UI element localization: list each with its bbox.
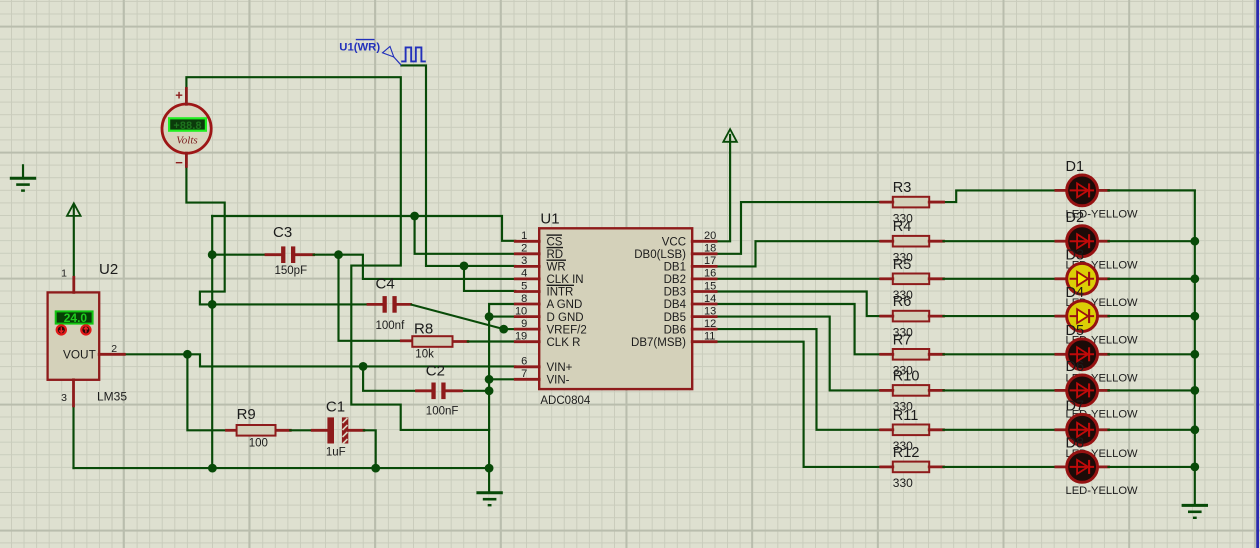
wire: D4 anode lead bbox=[944, 315, 1068, 317]
voltmeter label Volts bbox=[176, 135, 197, 147]
label LED-YELLOW (D4) bbox=[1066, 334, 1139, 346]
pin 10 (D GND) stub bbox=[515, 305, 584, 323]
svg-text:5: 5 bbox=[521, 280, 527, 292]
label R12 bbox=[893, 445, 920, 461]
wire: D3 cathode lead bbox=[1097, 277, 1194, 280]
resistor R4 bbox=[881, 236, 944, 247]
svg-text:7: 7 bbox=[521, 368, 527, 380]
svg-text:D5: D5 bbox=[1066, 323, 1085, 339]
wire: VOUT down to R9 bbox=[187, 354, 226, 430]
wire: diagonal to VREF/2 bbox=[411, 304, 504, 329]
svg-text:10: 10 bbox=[515, 305, 527, 317]
svg-text:U2: U2 bbox=[99, 261, 118, 278]
wire: voltmeter + to top rail bbox=[186, 77, 489, 430]
pin 7 (VIN-) stub bbox=[515, 368, 569, 386]
node: RD branch junction bbox=[410, 212, 419, 221]
svg-text:VOUT: VOUT bbox=[63, 347, 96, 361]
svg-text:VREF/2: VREF/2 bbox=[547, 324, 587, 336]
ground: floating symbol top-left bbox=[10, 165, 36, 190]
svg-text:DB7(MSB): DB7(MSB) bbox=[631, 337, 686, 349]
node: VREF/2 junction bbox=[499, 325, 508, 334]
label R3 bbox=[893, 180, 912, 196]
pin 8 (A GND) stub bbox=[515, 293, 582, 311]
label C2 bbox=[426, 362, 445, 379]
wire: D7 cathode lead bbox=[1097, 428, 1194, 431]
pin 2 (RD) stub bbox=[515, 243, 563, 261]
label C4 bbox=[376, 276, 395, 293]
value 330 (R5) bbox=[893, 288, 913, 302]
ground: bottom right bbox=[1182, 505, 1208, 517]
label D1 bbox=[1066, 159, 1085, 175]
svg-text:LM35: LM35 bbox=[97, 390, 127, 404]
wire: C2 right lead bbox=[447, 390, 490, 392]
pin 18 (DB0(LSB)) stub bbox=[634, 243, 716, 261]
wire: D1 cathode lead bbox=[1097, 189, 1194, 192]
svg-text:13: 13 bbox=[704, 305, 716, 317]
svg-text:U1(WR): U1(WR) bbox=[339, 42, 380, 54]
label R9 bbox=[237, 406, 256, 423]
power: VCC arrow near chip bbox=[723, 129, 737, 142]
svg-text:RD: RD bbox=[547, 249, 564, 261]
component U2 LM35 body bbox=[48, 292, 100, 379]
pin 9 (VREF/2) stub bbox=[515, 318, 586, 336]
wire: branch to RD pin 2 bbox=[415, 216, 516, 254]
wire: VIN- pin 7 bbox=[489, 378, 515, 380]
svg-text:DB4: DB4 bbox=[664, 299, 687, 311]
capacitor C4 bbox=[383, 296, 397, 313]
resistor R6 bbox=[881, 311, 944, 322]
label D6 bbox=[1066, 359, 1085, 375]
label C1 bbox=[326, 399, 345, 416]
chip U1 ADC0804 body bbox=[539, 228, 692, 389]
svg-text:10k: 10k bbox=[415, 348, 434, 360]
svg-text:VCC: VCC bbox=[662, 237, 686, 249]
pin 14 (DB4) stub bbox=[664, 293, 717, 311]
wire: DB4 pin 14 to R7 bbox=[716, 304, 881, 354]
wire: D7 anode lead bbox=[944, 429, 1068, 431]
LED D8 bbox=[1067, 452, 1098, 483]
value 330 (R3) bbox=[893, 211, 913, 225]
label R8 bbox=[414, 320, 433, 337]
svg-text:VIN-: VIN- bbox=[547, 375, 570, 387]
wire: power arrow to LM35 pin 1 bbox=[73, 206, 75, 278]
svg-text:DB3: DB3 bbox=[664, 287, 686, 299]
wire: R9 right to C1 bbox=[276, 429, 328, 432]
svg-text:100: 100 bbox=[249, 437, 268, 449]
svg-text:6: 6 bbox=[521, 356, 527, 368]
node: D8 on cathode rail bbox=[1190, 463, 1199, 472]
wire: D GND pin 10 bbox=[489, 316, 515, 318]
svg-text:330: 330 bbox=[893, 476, 913, 490]
voltmeter - mark bbox=[175, 155, 183, 170]
wire: DB7 pin 11 to R12 bbox=[716, 342, 881, 467]
svg-text:R11: R11 bbox=[893, 408, 919, 424]
svg-text:C3: C3 bbox=[273, 224, 292, 241]
wire: LED cathode rail to ground bbox=[1109, 190, 1195, 505]
node: C2 branch junction bbox=[359, 362, 368, 371]
wire: R3 output jog up to D1 bbox=[929, 190, 1067, 202]
label D2 bbox=[1066, 210, 1085, 226]
node: VIN- junction bbox=[485, 375, 494, 384]
node: WR/INTR junction bbox=[460, 262, 469, 271]
svg-text:DB6: DB6 bbox=[664, 324, 686, 336]
value 1uF bbox=[326, 447, 346, 459]
voltmeter display bbox=[169, 118, 206, 132]
resistor R10 bbox=[881, 385, 944, 396]
wire: C4 left lead bbox=[212, 303, 383, 305]
wire: LM35 pin 3 to bottom rail bbox=[72, 406, 74, 468]
svg-text:15: 15 bbox=[704, 280, 716, 292]
svg-text:D6: D6 bbox=[1066, 359, 1085, 375]
svg-text:20: 20 bbox=[704, 230, 716, 242]
U2 pin 1 stub bbox=[61, 267, 74, 292]
value 330 (R11) bbox=[893, 439, 913, 453]
svg-text:DB1: DB1 bbox=[664, 262, 686, 274]
label ADC0804 bbox=[540, 395, 590, 407]
label LED-YELLOW (D2) bbox=[1066, 259, 1139, 271]
voltmeter body bbox=[162, 89, 211, 167]
node: D2 on cathode rail bbox=[1190, 237, 1199, 246]
svg-text:17: 17 bbox=[704, 255, 716, 267]
svg-text:DB2: DB2 bbox=[664, 274, 686, 286]
wire: pulse gen to WR pin 3 bbox=[401, 65, 515, 266]
svg-text:19: 19 bbox=[515, 331, 527, 343]
resistor R7 bbox=[881, 349, 944, 360]
U2 VOUT text bbox=[63, 347, 96, 361]
wire: D5 cathode lead bbox=[1097, 353, 1194, 356]
pin 1 (CS) stub bbox=[515, 230, 563, 248]
wire: voltmeter - to ground net bbox=[186, 166, 224, 304]
pin 12 (DB6) stub bbox=[664, 318, 717, 336]
U2 up knob bbox=[81, 325, 90, 334]
wire: C1 right down to bottom rail bbox=[348, 430, 375, 468]
svg-text:D7: D7 bbox=[1066, 399, 1085, 415]
svg-text:9: 9 bbox=[521, 318, 527, 330]
pin 20 (VCC) stub bbox=[662, 230, 717, 248]
label U2 bbox=[99, 261, 118, 278]
node: trunk meets bottom rail bbox=[208, 464, 217, 473]
wire: A GND pin 8 to ground rail bbox=[489, 304, 515, 493]
node: D7 on cathode rail bbox=[1190, 425, 1199, 434]
value 330 (R12) bbox=[893, 476, 913, 490]
LED D5 bbox=[1067, 339, 1098, 370]
power: +V arrow above LM35 bbox=[67, 203, 81, 216]
svg-text:Volts: Volts bbox=[176, 135, 197, 147]
svg-text:C1: C1 bbox=[326, 399, 345, 416]
svg-text:U1: U1 bbox=[540, 210, 559, 227]
node: D4 on cathode rail bbox=[1190, 312, 1199, 321]
value 330 (R7) bbox=[893, 364, 913, 378]
svg-text:CLK IN: CLK IN bbox=[547, 274, 584, 286]
svg-text:R6: R6 bbox=[893, 294, 912, 310]
capacitor C3 bbox=[281, 246, 295, 263]
U2 down knob bbox=[57, 325, 66, 334]
svg-text:DB5: DB5 bbox=[664, 312, 686, 324]
label R6 bbox=[893, 294, 912, 310]
wire: DB5 pin 13 to R10 bbox=[716, 317, 881, 391]
wire: DB1 pin 17 to R4 bbox=[716, 241, 881, 266]
label R4 bbox=[893, 219, 912, 235]
wire: DB6 pin 12 to R11 bbox=[716, 329, 881, 430]
wire: R8 left lead bbox=[401, 339, 412, 342]
window border right edge bbox=[1256, 0, 1259, 548]
svg-text:INTR: INTR bbox=[547, 287, 574, 299]
pin 4 (CLK IN) stub bbox=[515, 268, 583, 286]
svg-text:14: 14 bbox=[704, 293, 716, 305]
label U1(WR) pulse source bbox=[339, 40, 380, 54]
wire: branch down to C2 bbox=[363, 366, 416, 390]
capacitor C1 polarized bbox=[327, 417, 348, 444]
wire: DB0 pin 18 to R3 bbox=[716, 202, 881, 254]
node: C1 meets bottom rail bbox=[371, 464, 380, 473]
svg-text:ADC0804: ADC0804 bbox=[540, 395, 590, 407]
svg-text:1: 1 bbox=[61, 267, 67, 279]
wire: D2 cathode lead bbox=[1097, 240, 1194, 243]
svg-text:100nF: 100nF bbox=[426, 405, 459, 417]
node: bottom rail meets gnd rail bbox=[485, 464, 494, 473]
label LED-YELLOW (D8) bbox=[1066, 485, 1139, 497]
wire: C2 left lead bbox=[417, 389, 432, 392]
value 10k bbox=[415, 348, 434, 360]
svg-text:−: − bbox=[175, 155, 183, 170]
wire: D3 anode lead bbox=[944, 278, 1068, 280]
svg-text:R12: R12 bbox=[893, 445, 920, 461]
wire: LM35 VOUT run to VIN+ pin 6 bbox=[124, 354, 515, 366]
svg-text:3: 3 bbox=[61, 392, 67, 404]
ground: below chip bbox=[476, 493, 502, 505]
pin 5 (INTR) stub bbox=[515, 280, 574, 298]
svg-text:D GND: D GND bbox=[547, 312, 584, 324]
svg-text:2: 2 bbox=[521, 243, 527, 255]
svg-text:R7: R7 bbox=[893, 332, 912, 348]
svg-text:CLK R: CLK R bbox=[547, 337, 581, 349]
node: D3 on cathode rail bbox=[1190, 274, 1199, 283]
pin 13 (DB5) stub bbox=[664, 305, 717, 323]
resistor R3 bbox=[881, 197, 944, 208]
node: C4 left junction bbox=[208, 300, 217, 309]
label R5 bbox=[893, 257, 912, 273]
value 100nf bbox=[376, 320, 406, 332]
label D5 bbox=[1066, 323, 1085, 339]
label R7 bbox=[893, 332, 912, 348]
svg-text:1uF: 1uF bbox=[326, 447, 346, 459]
LED D2 bbox=[1067, 226, 1098, 257]
wire: C4 right lead bbox=[396, 303, 410, 306]
resistor R5 bbox=[881, 274, 944, 285]
node: D6 on cathode rail bbox=[1190, 386, 1199, 395]
wire: D2 anode lead bbox=[944, 240, 1068, 242]
svg-text:24.0: 24.0 bbox=[64, 311, 88, 325]
capacitor C2 bbox=[431, 383, 445, 400]
pin 11 (DB7(MSB)) stub bbox=[631, 331, 716, 349]
pin 17 (DB1) stub bbox=[664, 255, 717, 273]
node: C3 left junction bbox=[208, 250, 217, 259]
resistor R11 bbox=[881, 425, 944, 436]
wire: WR node down to INTR pin 5 bbox=[464, 266, 515, 291]
wire: ground net vertical trunk bbox=[211, 216, 213, 468]
svg-text:VIN+: VIN+ bbox=[547, 362, 573, 374]
label R10 bbox=[893, 368, 920, 384]
LED D1 bbox=[1067, 175, 1098, 206]
resistor R12 bbox=[881, 462, 944, 473]
value 100nF bbox=[426, 405, 459, 417]
svg-text:C2: C2 bbox=[426, 362, 445, 379]
U2 display bbox=[56, 311, 93, 325]
svg-text:R5: R5 bbox=[893, 257, 912, 273]
LED D6 bbox=[1067, 375, 1098, 406]
svg-text:R3: R3 bbox=[893, 180, 912, 196]
value 100 bbox=[249, 437, 268, 449]
svg-text:A GND: A GND bbox=[547, 299, 583, 311]
value 330 (R4) bbox=[893, 251, 913, 265]
label LED-YELLOW (D3) bbox=[1066, 297, 1139, 309]
wire: R8 right to CLK R pin 19 bbox=[453, 340, 516, 343]
wire: C3 left lead bbox=[212, 254, 281, 256]
LED D7 bbox=[1067, 414, 1098, 445]
svg-text:+88.8: +88.8 bbox=[173, 120, 201, 132]
node: C3 clock junction bbox=[334, 250, 343, 259]
pulse marker triangle bbox=[383, 46, 402, 65]
pin 19 (CLK R) stub bbox=[515, 331, 580, 349]
svg-text:16: 16 bbox=[704, 268, 716, 280]
svg-text:D3: D3 bbox=[1066, 248, 1085, 264]
pin 6 (VIN+) stub bbox=[515, 356, 572, 374]
label R11 bbox=[893, 408, 919, 424]
wire: D5 anode lead bbox=[944, 353, 1068, 355]
label LED-YELLOW (D5) bbox=[1066, 373, 1139, 385]
wire: D8 anode lead bbox=[944, 466, 1068, 468]
wire: ground net top run to CS pin 1 bbox=[212, 216, 515, 241]
label LED-YELLOW (D1) bbox=[1066, 209, 1139, 221]
label D8 bbox=[1066, 436, 1085, 452]
wire: D6 anode lead bbox=[944, 389, 1068, 391]
svg-text:8: 8 bbox=[521, 293, 527, 305]
svg-text:R4: R4 bbox=[893, 219, 912, 235]
svg-text:R9: R9 bbox=[237, 406, 256, 423]
svg-text:12: 12 bbox=[704, 318, 716, 330]
label D4 bbox=[1066, 285, 1085, 301]
svg-text:D8: D8 bbox=[1066, 436, 1085, 452]
svg-text:3: 3 bbox=[521, 255, 527, 267]
label D7 bbox=[1066, 399, 1085, 415]
node: D GND junction bbox=[485, 312, 494, 321]
wire: VCC power arrow to pin 20 bbox=[716, 135, 730, 241]
wire: bottom ground rail bbox=[74, 467, 490, 469]
node: C2 right junction bbox=[485, 386, 494, 395]
pin 3 (WR) stub bbox=[515, 255, 566, 273]
label D3 bbox=[1066, 248, 1085, 264]
label LM35 bbox=[97, 390, 127, 404]
wire: D6 cathode lead bbox=[1097, 389, 1194, 392]
LED D3 bbox=[1067, 263, 1098, 294]
node: D5 on cathode rail bbox=[1190, 350, 1199, 359]
svg-text:R8: R8 bbox=[414, 320, 433, 337]
resistor R9 bbox=[237, 425, 276, 436]
svg-text:R10: R10 bbox=[893, 368, 920, 384]
LED D4 bbox=[1067, 301, 1098, 332]
svg-text:150pF: 150pF bbox=[275, 265, 308, 277]
wire: DB2 pin 16 to R5 bbox=[716, 278, 881, 280]
voltmeter + mark bbox=[175, 88, 183, 103]
svg-text:WR: WR bbox=[547, 262, 566, 274]
svg-text:4: 4 bbox=[521, 268, 527, 280]
node: VOUT junction bbox=[183, 350, 192, 359]
wire: R9 left lead bbox=[227, 429, 237, 432]
U2 pin 3 stub bbox=[61, 380, 73, 406]
svg-text:D2: D2 bbox=[1066, 210, 1085, 226]
svg-text:D4: D4 bbox=[1066, 285, 1085, 301]
svg-text:C4: C4 bbox=[376, 276, 395, 293]
value 150pF bbox=[275, 265, 308, 277]
svg-text:1: 1 bbox=[521, 230, 527, 242]
svg-text:18: 18 bbox=[704, 243, 716, 255]
resistor R8 bbox=[412, 336, 452, 347]
svg-text:2: 2 bbox=[111, 343, 117, 355]
value 330 (R10) bbox=[893, 400, 913, 414]
svg-text:CS: CS bbox=[547, 237, 563, 249]
wire: VREF/2 pin 9 bbox=[504, 328, 516, 330]
wire: C3 right to CLK IN pin 4 bbox=[295, 255, 515, 279]
wire: D8 cathode lead bbox=[1097, 465, 1194, 468]
wire: D4 cathode lead bbox=[1097, 315, 1194, 318]
label LED-YELLOW (D6) bbox=[1066, 409, 1139, 421]
svg-text:LED-YELLOW: LED-YELLOW bbox=[1066, 485, 1139, 497]
svg-text:100nf: 100nf bbox=[376, 320, 406, 332]
svg-text:D1: D1 bbox=[1066, 159, 1085, 175]
svg-text:11: 11 bbox=[704, 331, 715, 343]
clock waveform symbol bbox=[401, 47, 426, 61]
wire: DB3 pin 15 to R6 bbox=[716, 292, 881, 317]
svg-text:+: + bbox=[175, 88, 183, 103]
label C3 bbox=[273, 224, 292, 241]
pin 15 (DB3) stub bbox=[664, 280, 717, 298]
svg-text:DB0(LSB): DB0(LSB) bbox=[634, 249, 686, 261]
pin 16 (DB2) stub bbox=[664, 268, 717, 286]
wire: clock node down to R8 bbox=[339, 255, 402, 341]
value 330 (R6) bbox=[893, 325, 913, 339]
U2 pin 2 stub bbox=[99, 343, 124, 355]
label U1 bbox=[540, 210, 559, 227]
label LED-YELLOW (D7) bbox=[1066, 448, 1139, 460]
